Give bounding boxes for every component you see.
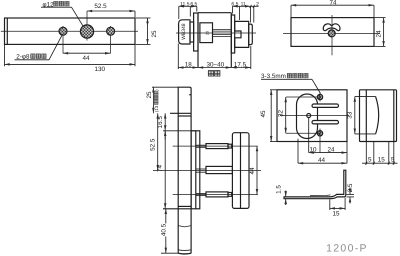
inner plate edge — [194, 13, 198, 51]
plate outline — [291, 18, 374, 47]
outer plate edge — [231, 15, 234, 53]
svg-text:WB348: WB348 — [181, 23, 187, 40]
dim 52.5 line — [87, 11, 135, 17]
dim 130 line — [5, 45, 136, 66]
strike screw column centerline — [319, 93, 321, 102]
svg-text:33: 33 — [347, 111, 354, 119]
top screw tip — [228, 144, 232, 148]
dim 52.5 left — [157, 113, 159, 170]
dim 33 — [354, 97, 356, 134]
hole centerline vertical phi12 — [86, 11, 88, 41]
svg-text:(13: (13 — [154, 105, 159, 112]
dim 40.5 left — [161, 209, 178, 253]
leader 2-phi8 — [15, 36, 62, 60]
strike screw hole bottom — [317, 131, 322, 136]
hole phi8 left — [59, 27, 67, 35]
top screw barrel — [206, 144, 228, 149]
dim 2.5 — [347, 188, 355, 204]
strike side outline — [360, 90, 397, 142]
top screw stub — [196, 144, 206, 146]
plate centerline — [1, 30, 138, 32]
svg-text:1200-P: 1200-P — [326, 242, 368, 254]
plate seam tick — [189, 94, 191, 96]
strike stadium cover — [297, 94, 318, 139]
svg-text:5: 5 — [391, 156, 395, 163]
dim 74 — [291, 5, 374, 17]
middle bar — [206, 166, 232, 173]
svg-text:1.5: 1.5 — [276, 185, 283, 194]
hole phi12 center — [80, 25, 93, 38]
dim 44 strike — [298, 139, 347, 163]
strike screw hole ext top — [286, 96, 320, 98]
dim 25 left — [152, 87, 178, 113]
top screw centerline — [173, 145, 258, 147]
svg-text:11.5: 11.5 — [180, 1, 190, 7]
strike side inner line1 — [365, 90, 367, 142]
plate outline — [5, 18, 136, 44]
svg-text:30~40: 30~40 — [206, 61, 224, 68]
hub block — [200, 23, 213, 43]
bottom screw stub — [196, 193, 206, 195]
svg-text:25: 25 — [151, 30, 158, 38]
bottom screw tip — [228, 193, 232, 197]
svg-text:44: 44 — [318, 157, 326, 164]
svg-text:20: 20 — [206, 31, 210, 35]
strike slot top — [312, 104, 339, 107]
strike screw hole top — [317, 94, 322, 99]
svg-text:3-3.5mm: 3-3.5mm — [261, 73, 286, 80]
svg-text:2.5: 2.5 — [347, 183, 354, 192]
hole centerline vertical left phi8 — [62, 26, 64, 53]
bracket fold line — [310, 194, 331, 197]
case top ext — [163, 130, 196, 132]
dim 5/15/5 — [362, 142, 398, 165]
spindle — [213, 28, 232, 30]
svg-text:44: 44 — [82, 55, 90, 62]
dim 15 bracket — [330, 198, 345, 211]
thumbturn shaft circle — [328, 30, 335, 37]
svg-text:6.5: 6.5 — [231, 1, 238, 7]
strike side dome bottom seam — [355, 133, 376, 135]
dim 44 line — [63, 52, 111, 54]
svg-text:15: 15 — [332, 211, 340, 218]
strike side dome — [376, 97, 379, 134]
plate bottom cap — [178, 252, 191, 255]
bottom screw barrel — [206, 192, 228, 197]
dim 11.5/6.5 left top — [179, 6, 197, 19]
dim 25 line right — [136, 18, 151, 44]
middle centerline — [153, 169, 261, 171]
dim 16.5 — [164, 113, 166, 131]
svg-text:5: 5 — [368, 156, 372, 163]
strike slot bottom — [312, 121, 339, 124]
plate left end seam — [6, 18, 8, 44]
bottom screw centerline — [173, 194, 258, 196]
svg-text:10: 10 — [309, 146, 317, 153]
svg-text:45: 45 — [260, 110, 267, 118]
lock case front face — [195, 131, 197, 209]
svg-text:φ12: φ12 — [43, 2, 55, 9]
cylinder body — [235, 21, 249, 47]
svg-text:40.5: 40.5 — [161, 223, 168, 236]
strike screw hole ext bottom — [286, 132, 320, 134]
cylinder cap — [249, 24, 253, 44]
dim 32 — [285, 97, 287, 133]
middle spindle stub — [196, 168, 206, 170]
dim 74 left — [164, 131, 166, 209]
plate bottom seam — [178, 249, 191, 252]
svg-text:24: 24 — [375, 30, 382, 38]
plate waist chevron — [178, 226, 191, 227]
svg-text:25: 25 — [146, 91, 153, 99]
svg-text:15: 15 — [378, 156, 386, 163]
thumbturn knob WB348 — [179, 20, 190, 44]
svg-text:11: 11 — [241, 1, 246, 7]
dim 10/24 — [309, 118, 347, 163]
lock case — [191, 131, 200, 209]
dim 44 right — [256, 146, 258, 195]
hole centerline vertical right phi8 — [110, 26, 112, 53]
svg-text:2: 2 — [256, 1, 259, 7]
vertical centerline — [331, 15, 333, 55]
svg-text:130: 130 — [95, 66, 106, 73]
svg-text:6.5: 6.5 — [190, 1, 197, 7]
svg-text:52.5: 52.5 — [94, 3, 107, 10]
dim 45 — [270, 90, 277, 142]
bracket profile — [284, 170, 346, 199]
strike center hole — [307, 114, 311, 118]
dim 6.5/11/2 right top — [233, 5, 259, 23]
strike side dome top seam — [355, 96, 376, 98]
dim 1.5 — [285, 191, 287, 206]
svg-text:74: 74 — [329, 0, 337, 7]
label leader 3-3.5 — [261, 79, 321, 93]
svg-text:18: 18 — [185, 61, 193, 68]
dim 24 — [375, 18, 386, 47]
dim 18 / 30~40 / 17.5 bottom — [178, 44, 251, 70]
strike side inner line3 — [393, 90, 395, 142]
door left face — [197, 13, 199, 68]
svg-text:44: 44 — [249, 167, 256, 175]
svg-text:2-φ8: 2-φ8 — [16, 54, 30, 61]
strike horizontal centerline — [280, 115, 349, 117]
svg-text:32: 32 — [278, 110, 285, 118]
door right face — [230, 13, 232, 68]
dim 16.5 overrun — [164, 131, 166, 140]
hole phi8 right — [107, 27, 115, 35]
horizontal centerline — [283, 33, 380, 35]
plate step top — [170, 112, 191, 114]
long plate edge view — [178, 87, 191, 253]
door top edge — [198, 12, 231, 14]
label 13 hole rotated — [154, 89, 159, 112]
section centerline — [176, 32, 256, 34]
svg-text:74: 74 — [157, 165, 164, 173]
svg-text:52.5: 52.5 — [150, 138, 157, 151]
svg-text:16.5: 16.5 — [157, 116, 164, 129]
outer unit side view — [232, 133, 249, 209]
outer unit seam — [240, 133, 242, 209]
thumbturn wing — [323, 24, 340, 31]
strike plate outline — [277, 90, 347, 142]
label hiatsu door thickness — [208, 71, 220, 77]
plate step bottom — [178, 205, 191, 207]
svg-text:17.5: 17.5 — [234, 61, 247, 68]
svg-text:24: 24 — [327, 146, 335, 153]
knob base — [190, 22, 194, 42]
leader phi12 — [41, 7, 84, 27]
